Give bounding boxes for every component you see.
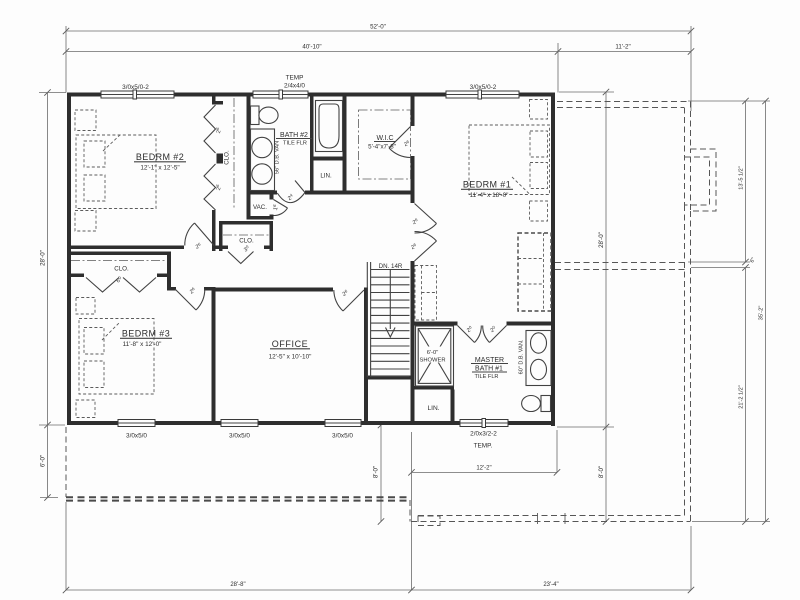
extension lines top bbox=[65, 26, 67, 93]
office right wall bbox=[364, 288, 368, 422]
porch dashed left bbox=[65, 427, 67, 497]
nightstands bedroom1 bbox=[530, 100, 548, 120]
svg-text:VAC.: VAC. bbox=[253, 204, 267, 211]
dimension 21'-2 1/2" right bbox=[745, 268, 747, 522]
bedroom3 / office wall bbox=[212, 287, 216, 421]
dimension 52'-0" top bbox=[66, 30, 691, 32]
svg-text:8'-0": 8'-0" bbox=[373, 466, 380, 478]
WIC shelving dash-dot bbox=[359, 110, 411, 179]
svg-text:12'-1" x 12'-5": 12'-1" x 12'-5" bbox=[140, 165, 179, 172]
exterior wall right bbox=[551, 93, 555, 427]
svg-text:LIN.: LIN. bbox=[427, 405, 439, 412]
dimension 40'-10" bbox=[66, 51, 558, 53]
window 2/0x3/2-2 master bath bbox=[460, 420, 508, 427]
svg-text:TEMP.: TEMP. bbox=[474, 443, 493, 450]
window TEMP 2/4x4/0 bbox=[253, 91, 308, 98]
dimension 11'-2" bbox=[558, 51, 691, 53]
deck upper dashed pair bbox=[555, 262, 685, 264]
window 3/0x5/0-2 bedroom2 bbox=[101, 91, 174, 98]
stair direction arrow bbox=[389, 270, 391, 330]
extension lines left bbox=[39, 92, 66, 94]
svg-text:12'-2": 12'-2" bbox=[476, 466, 491, 472]
dimension 12'-2" bbox=[412, 471, 558, 473]
exterior wall top bbox=[67, 93, 101, 97]
svg-text:52'-0": 52'-0" bbox=[370, 24, 386, 31]
dimension 8'-0" middle bbox=[605, 427, 607, 522]
svg-text:LIN.: LIN. bbox=[320, 173, 332, 180]
window 3/0x5/0 office a bbox=[221, 420, 258, 427]
window 3/0x5/0 office b bbox=[325, 420, 361, 427]
svg-text:28'-8": 28'-8" bbox=[230, 582, 245, 588]
svg-text:3/0x5/0: 3/0x5/0 bbox=[126, 433, 147, 440]
vanity master 60" D.B. VAN bbox=[526, 331, 551, 386]
door 1'6 vac closet bbox=[274, 200, 288, 209]
stairs DN 14R bbox=[366, 262, 368, 377]
svg-text:3/0x5/0: 3/0x5/0 bbox=[229, 433, 250, 440]
bold dashed porch edge bbox=[66, 496, 409, 498]
bath2 WIC bottom wall bbox=[247, 191, 278, 195]
svg-text:11'-2": 11'-2" bbox=[615, 44, 630, 51]
window 3/0x5/0 bedroom3 bbox=[118, 420, 155, 427]
deck bottom dashed bbox=[418, 515, 685, 517]
svg-text:12'-5" x 10'-10": 12'-5" x 10'-10" bbox=[269, 354, 312, 361]
stairs / sitting room wall bbox=[411, 97, 415, 127]
shower 6'-0" master bbox=[416, 326, 454, 386]
svg-text:BEDRM #3: BEDRM #3 bbox=[122, 329, 170, 339]
closet rod bedroom3 bbox=[71, 260, 167, 262]
bifold door 3'0 hall closet bbox=[228, 252, 254, 264]
svg-text:OFFICE: OFFICE bbox=[272, 339, 309, 349]
svg-text:28'-0": 28'-0" bbox=[598, 232, 605, 248]
nightstands bedroom3 bbox=[76, 298, 95, 315]
exterior wall left bbox=[67, 93, 71, 426]
door 2'4 bath2 bbox=[295, 181, 305, 193]
wall below stairs bbox=[368, 376, 414, 380]
sofa by stairs bbox=[415, 266, 437, 321]
svg-text:TILE FLR: TILE FLR bbox=[475, 374, 499, 380]
svg-text:23'-4": 23'-4" bbox=[543, 582, 558, 588]
svg-text:2/0x3/2-2: 2/0x3/2-2 bbox=[470, 431, 497, 438]
vanity bath2 56" D.B. VAN bbox=[251, 129, 275, 191]
nightstands bedroom2 bbox=[75, 110, 96, 131]
tub wall bbox=[310, 97, 314, 195]
WIC left wall bbox=[343, 97, 347, 195]
bed bedroom3 bbox=[79, 319, 154, 395]
svg-text:56" D.B. VAN: 56" D.B. VAN bbox=[275, 141, 281, 174]
bath2 left wall bbox=[247, 97, 251, 220]
dimension 6'-0" left bbox=[47, 425, 49, 498]
door 2'6 sitting room upper bbox=[415, 204, 437, 224]
svg-text:6'-0": 6'-0" bbox=[427, 350, 439, 356]
svg-text:BEDRM #2: BEDRM #2 bbox=[136, 152, 184, 162]
door 2'6 office bbox=[343, 290, 364, 311]
door 2'6 bedroom2 entry bbox=[195, 223, 215, 246]
master bath top wall bbox=[415, 322, 458, 326]
dimension 6" right bbox=[742, 264, 748, 270]
svg-text:5'-4"x7'-8": 5'-4"x7'-8" bbox=[368, 144, 396, 151]
svg-text:BEDRM #1: BEDRM #1 bbox=[463, 180, 511, 190]
hall closet walls bbox=[219, 221, 223, 251]
svg-text:DN. 14R: DN. 14R bbox=[379, 263, 403, 270]
dimension 28'-8" and 23'-4" bottom bbox=[66, 589, 691, 591]
office top wall bbox=[216, 288, 334, 292]
door 2'6 WIC bbox=[389, 127, 411, 149]
closet rod hall closet bbox=[223, 234, 270, 236]
vac closet walls bbox=[247, 216, 274, 220]
bed bedroom1 bbox=[469, 125, 550, 195]
bedroom3 closet walls bbox=[67, 252, 171, 256]
window 3/0x5/0-2 bedroom1 bbox=[446, 91, 519, 98]
svg-text:3/0x5/0: 3/0x5/0 bbox=[332, 433, 353, 440]
door 2'6 sitting room lower bbox=[415, 241, 437, 261]
bedroom3 top wall jambs bbox=[171, 287, 176, 291]
extension lines right bbox=[688, 100, 770, 102]
exterior wall bottom bbox=[67, 421, 118, 425]
svg-text:SHOWER: SHOWER bbox=[419, 358, 445, 364]
svg-text:21'-2 1/2": 21'-2 1/2" bbox=[739, 385, 745, 409]
svg-text:11'-4" x 18'-0": 11'-4" x 18'-0" bbox=[470, 192, 509, 199]
svg-text:TEMP: TEMP bbox=[286, 75, 304, 82]
bedroom2 closet wall bbox=[212, 97, 216, 105]
svg-text:8'-0": 8'-0" bbox=[598, 466, 605, 478]
bifold doors 6'0 bedroom3 closet bbox=[86, 278, 119, 293]
bifold doors 2'6 bedroom2 closet lower bbox=[204, 164, 216, 210]
svg-text:11'-8" x 12'-0": 11'-8" x 12'-0" bbox=[123, 341, 162, 348]
svg-text:6'-0": 6'-0" bbox=[40, 455, 47, 467]
svg-text:3/0x5/0-2: 3/0x5/0-2 bbox=[122, 84, 149, 91]
svg-text:35'-2": 35'-2" bbox=[759, 306, 765, 321]
svg-text:CLO.: CLO. bbox=[224, 150, 231, 165]
toilet bath2 bbox=[251, 106, 260, 125]
dimension 28'-0" left bbox=[47, 93, 49, 426]
svg-text:CLO.: CLO. bbox=[239, 238, 254, 245]
deck dashed outline right bbox=[557, 101, 688, 103]
bifold doors 2'6 bedroom2 closet upper bbox=[204, 105, 216, 153]
svg-text:TILE FLR: TILE FLR bbox=[283, 141, 307, 147]
couch sitting area bbox=[518, 233, 551, 311]
dimension 28'-0" middle bbox=[605, 92, 607, 427]
svg-text:40'-10": 40'-10" bbox=[302, 44, 321, 51]
svg-text:28'-0": 28'-0" bbox=[40, 250, 47, 266]
fireplace bump dashed bbox=[691, 149, 717, 211]
svg-text:CLO.: CLO. bbox=[114, 266, 129, 273]
svg-text:3/0x5/0-2: 3/0x5/0-2 bbox=[470, 84, 497, 91]
toilet master bbox=[541, 396, 551, 412]
dimension 13'-5 1/2" right bbox=[745, 101, 747, 262]
dimension 35'-2" right bbox=[765, 101, 767, 522]
double doors 2'0 master bath bbox=[458, 326, 475, 343]
closet rod bedroom2 bbox=[233, 98, 235, 210]
svg-text:60" D.B. VAN.: 60" D.B. VAN. bbox=[519, 339, 525, 374]
door 2'6 bedroom3 entry bbox=[175, 289, 196, 310]
svg-text:2/4x4/0: 2/4x4/0 bbox=[284, 83, 305, 90]
svg-text:13'-5 1/2": 13'-5 1/2" bbox=[739, 166, 745, 190]
dimension 8'-0" center-bottom bbox=[380, 425, 382, 522]
master linen walls bbox=[411, 386, 455, 390]
bed bedroom2 bbox=[76, 135, 156, 209]
hall wall below bedroom2 bbox=[67, 246, 184, 250]
tub bath2 bbox=[316, 101, 343, 152]
